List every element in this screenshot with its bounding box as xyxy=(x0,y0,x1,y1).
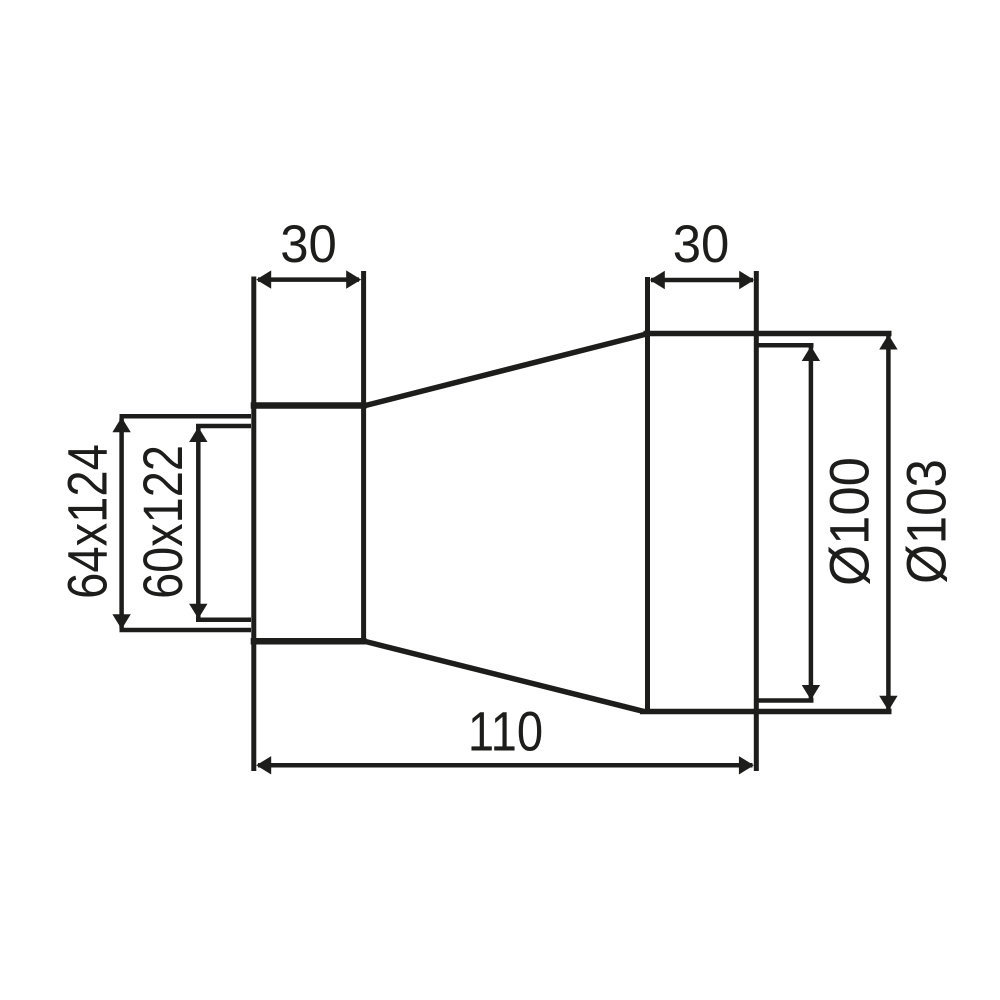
body: cone top diagonal edge xyxy=(364,334,647,406)
dimension dia103: top arrowhead xyxy=(879,335,897,350)
svg-text:110: 110 xyxy=(468,700,543,762)
dimension dia103: vertical dimension line xyxy=(886,336,891,710)
dimension 30 (top right): right arrowhead xyxy=(739,271,754,289)
body: left main vertical edge / extension line for 30 and 110 dims xyxy=(251,277,256,772)
dimension 60x122: top extension line xyxy=(196,424,251,429)
dimension 60x122: vertical dimension line xyxy=(196,428,201,619)
dimension 30 (top right): line xyxy=(651,278,753,283)
svg-text:30: 30 xyxy=(673,215,730,274)
dimension 60x122: top arrowhead xyxy=(189,427,207,442)
body: left rectangular collar top edge xyxy=(251,402,367,409)
dimension 30 (top right): left arrowhead xyxy=(650,271,665,289)
svg-text:64x124: 64x124 xyxy=(56,444,118,599)
dimension 60x122: bottom extension line xyxy=(196,618,251,623)
dimension dia100: top arrowhead xyxy=(802,346,820,361)
dimension 110: left arrowhead xyxy=(256,756,271,774)
dimension 110: right arrowhead xyxy=(739,756,754,774)
dimension 64x124: top arrowhead xyxy=(112,417,130,432)
body: left collar right vertical edge / extension line for top-left 30 dim xyxy=(361,271,366,644)
dimension 64x124: top extension line xyxy=(120,414,252,419)
dimension 64x124: bottom arrowhead xyxy=(112,614,130,629)
dimension 30 (top left): line xyxy=(258,277,359,282)
dimension 64x124: vertical dimension line xyxy=(119,418,124,629)
body: spigot bottom edge, continuing as extension line for dia 103 dim xyxy=(640,709,892,715)
body: round spigot right vertical edge / extension for 30 and 110 dims xyxy=(754,271,759,771)
svg-text:30: 30 xyxy=(280,215,337,274)
dimension 30 (top left): right arrowhead xyxy=(346,270,361,288)
dimension dia100: bottom arrowhead xyxy=(802,685,820,700)
dimension dia100: bottom extension line xyxy=(759,698,814,703)
dimension 110 (bottom): line xyxy=(258,763,753,768)
svg-text:Ø100: Ø100 xyxy=(819,457,881,586)
body: spigot top edge, continuing as extension line for dia 103 dim xyxy=(644,331,892,337)
dimension dia100: top extension line xyxy=(759,343,814,348)
dimension dia103: bottom arrowhead xyxy=(879,696,897,711)
dimension dia100: vertical dimension line xyxy=(809,347,814,699)
dimension 60x122: bottom arrowhead xyxy=(189,604,207,619)
body: left rectangular collar bottom edge xyxy=(251,638,367,645)
svg-text:Ø103: Ø103 xyxy=(897,459,958,584)
body: cone bottom diagonal edge xyxy=(364,641,645,712)
dimension 30 (top left): left arrowhead xyxy=(256,270,271,288)
svg-text:60x122: 60x122 xyxy=(131,445,194,599)
dimension 64x124: bottom extension line xyxy=(120,628,252,633)
body: round spigot left vertical edge / extension line for right 30 dim xyxy=(645,277,650,714)
